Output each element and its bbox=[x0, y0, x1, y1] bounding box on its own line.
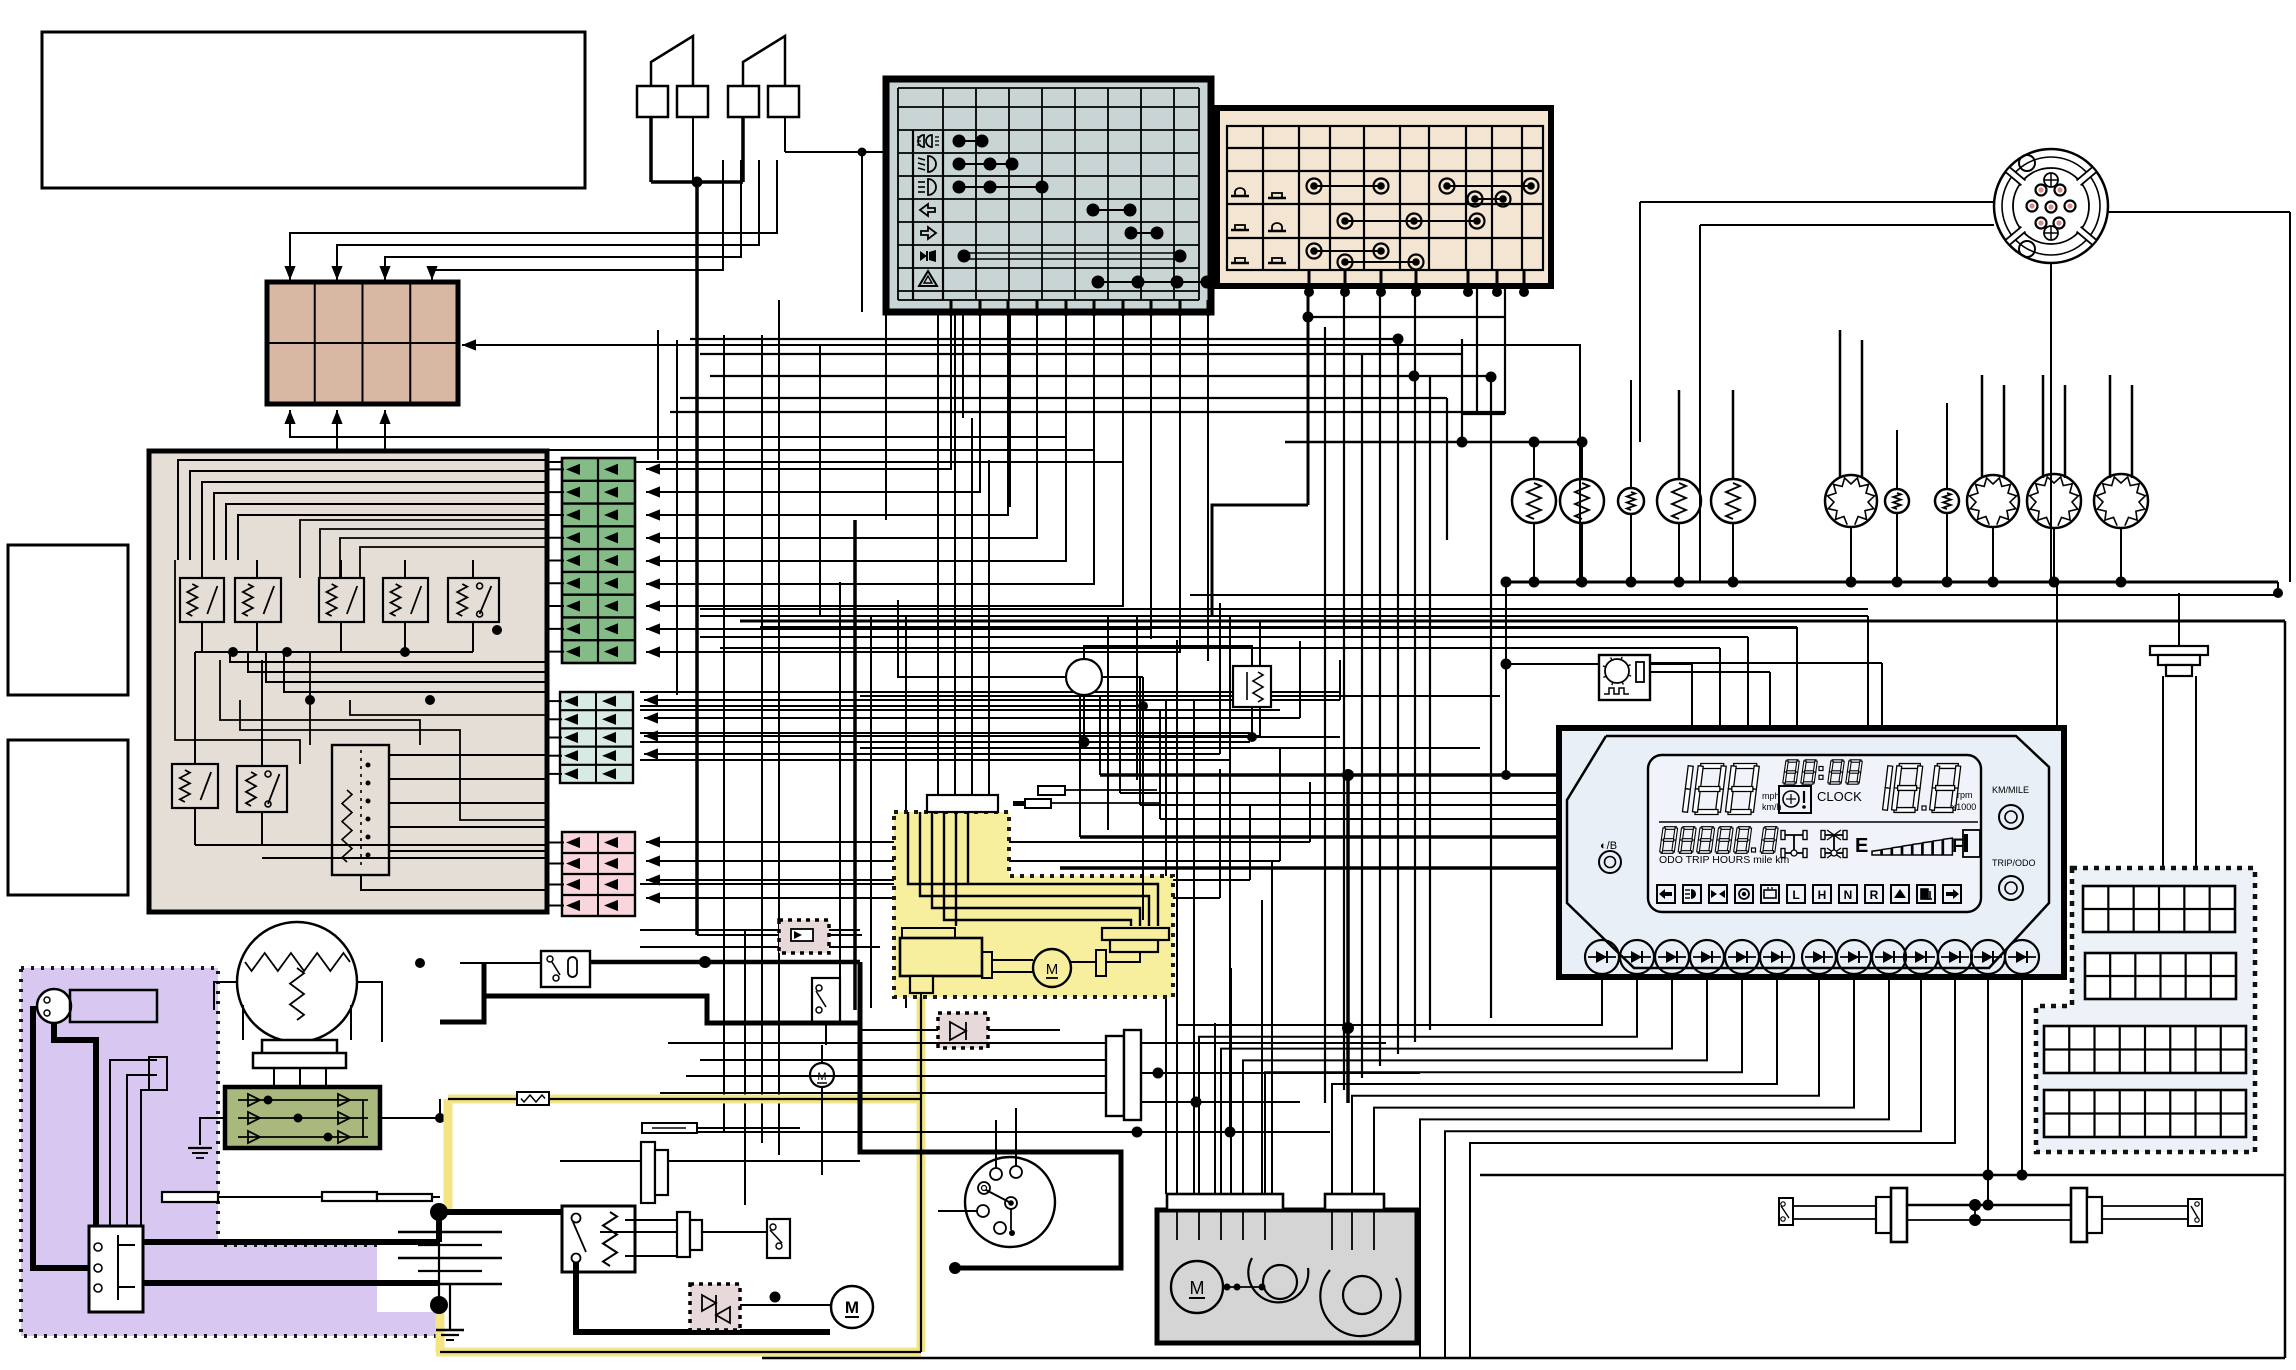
svg-text:ODO TRIP HOURS mile km: ODO TRIP HOURS mile km bbox=[1659, 854, 1790, 866]
svg-text:mph: mph bbox=[1762, 791, 1780, 801]
svg-text:M: M bbox=[1190, 1278, 1205, 1298]
svg-text:H: H bbox=[1818, 888, 1827, 902]
svg-text:CLOCK: CLOCK bbox=[1817, 789, 1862, 804]
svg-text:R: R bbox=[1870, 888, 1879, 902]
svg-text:M: M bbox=[845, 1298, 859, 1317]
svg-text:TRIP/ODO: TRIP/ODO bbox=[1992, 858, 2036, 868]
svg-text:N: N bbox=[1844, 888, 1853, 902]
svg-text:E: E bbox=[1855, 835, 1868, 857]
svg-text:KM/MILE: KM/MILE bbox=[1992, 785, 2029, 795]
svg-text:×1000: ×1000 bbox=[1951, 802, 1976, 812]
svg-text:L: L bbox=[1792, 888, 1799, 902]
svg-text:rpm: rpm bbox=[1957, 790, 1973, 800]
svg-text:M: M bbox=[1046, 961, 1059, 978]
svg-text:F: F bbox=[1952, 836, 1964, 857]
